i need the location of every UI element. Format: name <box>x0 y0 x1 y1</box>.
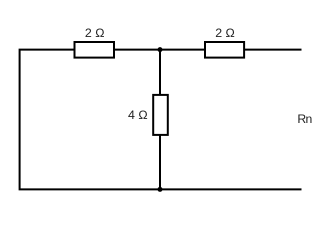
svg-text:Rn: Rn <box>297 112 312 126</box>
wire: outer loop (top wire, left vertical wire, bottom wire) <box>20 50 302 190</box>
svg-text:2 Ω: 2 Ω <box>85 26 105 40</box>
node: bottom junction dot <box>158 187 163 192</box>
svg-text:2 Ω: 2 Ω <box>215 26 235 40</box>
resistor R2 (2 ohm, top-right) <box>205 42 244 58</box>
resistor R1 (2 ohm, top-left) <box>75 42 115 58</box>
node: top junction dot <box>158 47 163 52</box>
resistor R3 (4 ohm, middle vertical) <box>153 95 168 135</box>
wire: middle vertical branch <box>159 50 161 190</box>
svg-text:4 Ω: 4 Ω <box>128 108 148 122</box>
